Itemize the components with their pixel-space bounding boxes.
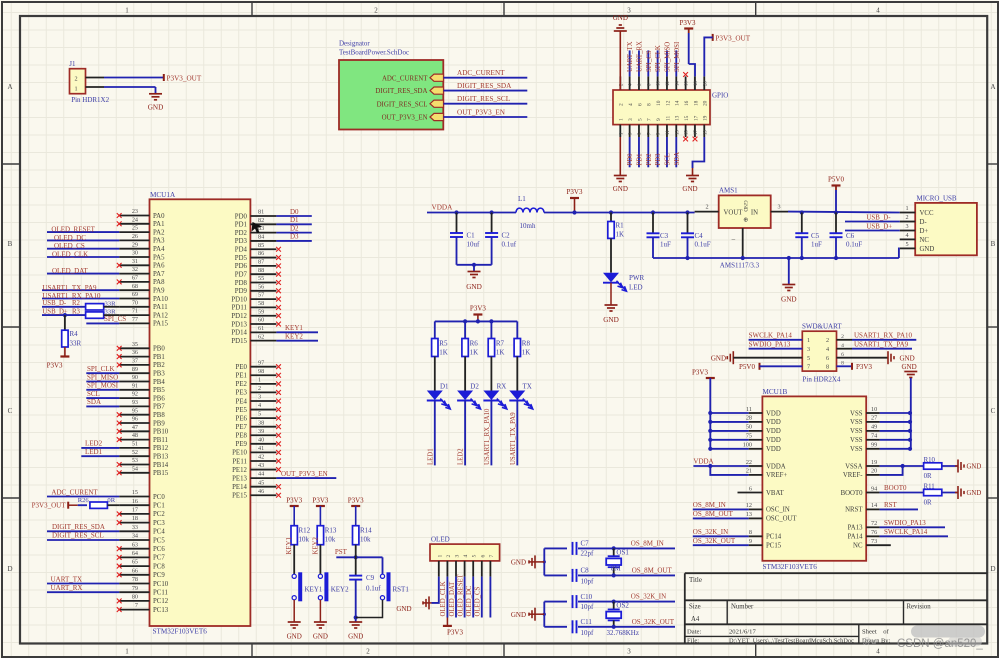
pin 2 stub of J1: [86, 77, 105, 79]
svg-text:84: 84: [258, 234, 264, 241]
GPIO pin 6: [638, 76, 640, 90]
svg-text:86: 86: [258, 250, 264, 257]
GPIO pin 16: [685, 76, 687, 90]
svg-text:STM32F103VET6: STM32F103VET6: [153, 628, 208, 636]
svg-text:PA2: PA2: [153, 229, 165, 236]
wire net ADC_CURENT: [47, 496, 119, 498]
svg-text:1: 1: [437, 555, 443, 558]
svg-text:29: 29: [132, 241, 138, 248]
svg-text:5: 5: [637, 118, 643, 121]
svg-text:34: 34: [132, 533, 138, 540]
svg-text:OS_8M_IN: OS_8M_IN: [631, 540, 664, 548]
svg-text:SPI_CLK: SPI_CLK: [655, 45, 662, 72]
svg-text:OS2: OS2: [616, 602, 629, 610]
wire R13 to KEY2 button: [319, 545, 321, 575]
svg-text:PC7: PC7: [153, 555, 165, 562]
svg-text:19: 19: [703, 115, 709, 121]
sheet entry port DIGIT_RES_SDA: [430, 87, 444, 94]
svg-text:PD13: PD13: [231, 321, 247, 328]
svg-text:43: 43: [258, 462, 264, 469]
pin 90 (PB4) of MCU1A: [119, 381, 149, 383]
svg-text:USB_D-: USB_D-: [866, 214, 891, 221]
wire P3V3_OUT to R26: [68, 504, 78, 506]
svg-text:KEY1: KEY1: [286, 537, 293, 554]
svg-text:R7: R7: [496, 340, 505, 348]
svg-text:PC6: PC6: [153, 546, 165, 553]
svg-text:69: 69: [132, 291, 138, 298]
svg-text:P3V3: P3V3: [567, 188, 583, 196]
svg-text:58: 58: [258, 300, 264, 307]
pin 24 (PA1) of MCU1A: [119, 223, 149, 225]
svg-text:1: 1: [74, 86, 77, 93]
wire OS_32K_IN top: [544, 601, 675, 603]
svg-text:R3: R3: [72, 309, 81, 316]
svg-text:VOUT: VOUT: [724, 210, 744, 217]
svg-text:P3V3_OUT: P3V3_OUT: [167, 74, 202, 82]
svg-text:C8: C8: [581, 567, 590, 575]
svg-text:VREF+: VREF+: [766, 472, 787, 479]
svg-text:⊕: ⊕: [743, 218, 748, 224]
svg-text:ADC_CURENT: ADC_CURENT: [457, 69, 505, 77]
svg-text:OS_32K_IN: OS_32K_IN: [631, 593, 666, 601]
svg-text:6: 6: [637, 103, 643, 106]
svg-text:VSS: VSS: [850, 428, 863, 435]
wire USB D- net: [845, 221, 900, 223]
svg-text:18: 18: [693, 100, 699, 106]
GPIO pin 13: [675, 125, 677, 137]
pin 4 (PE5) of MCU1A: [250, 409, 276, 411]
svg-text:Pin HDR1X2: Pin HDR1X2: [71, 96, 109, 104]
wire KEY1 to ground: [293, 600, 295, 622]
svg-text:P3V3: P3V3: [680, 19, 696, 27]
svg-text:53: 53: [132, 457, 138, 464]
pin 41 (PE10) of MCU1A: [250, 451, 276, 453]
wire net KEY1: [276, 331, 318, 333]
svg-text:81: 81: [258, 209, 264, 216]
GPIO pin 12: [666, 76, 668, 90]
wire net SPI_CS: [86, 322, 119, 324]
svg-text:51: 51: [132, 441, 138, 448]
svg-text:1K: 1K: [522, 349, 531, 357]
svg-text:P3V3: P3V3: [312, 497, 328, 505]
svg-text:SDA: SDA: [87, 398, 101, 406]
svg-text:18: 18: [694, 81, 699, 86]
svg-text:16: 16: [132, 498, 138, 505]
svg-text:2: 2: [258, 385, 261, 392]
pin 60 (PD13) of MCU1A: [250, 323, 276, 325]
svg-text:MICRO_USB: MICRO_USB: [917, 195, 957, 203]
svg-text:PA4: PA4: [153, 246, 165, 253]
svg-text:OS1: OS1: [616, 549, 629, 557]
svg-text:C: C: [991, 407, 996, 415]
svg-text:P3V3: P3V3: [47, 362, 63, 370]
svg-text:P3V3: P3V3: [348, 497, 364, 505]
pin 98 (PE1) of MCU1A: [250, 374, 276, 376]
crystal OS2 32.768KHz: [612, 600, 616, 604]
pin 28 (VDD) of MCU1B: [708, 420, 712, 424]
svg-text:D: D: [990, 565, 995, 573]
resistor R6 1K: [462, 339, 468, 357]
svg-text:RST1: RST1: [393, 586, 410, 594]
svg-text:2: 2: [446, 555, 452, 558]
svg-text:GND: GND: [613, 185, 628, 193]
svg-text:PA1: PA1: [153, 221, 164, 228]
svg-text:Revision: Revision: [907, 603, 932, 610]
svg-text:40: 40: [258, 436, 264, 443]
wire header pin 4 to USART1_TX_PA9: [837, 348, 853, 350]
svg-text:2: 2: [705, 204, 708, 211]
svg-text:9: 9: [749, 538, 752, 545]
svg-text:OLED_CS: OLED_CS: [54, 242, 85, 250]
svg-text:OS_8M_OUT: OS_8M_OUT: [693, 510, 734, 518]
svg-text:R13: R13: [325, 527, 337, 535]
svg-text:PA6: PA6: [153, 263, 165, 270]
svg-text:GND: GND: [682, 185, 697, 193]
wire rail to R7: [490, 321, 492, 338]
ground GND at crystal: [528, 560, 530, 563]
svg-text:1: 1: [125, 648, 129, 656]
pin 94 (BOOT0) of MCU1B: [866, 492, 879, 494]
inductor L1: [516, 208, 544, 212]
svg-text:ADC_CURENT: ADC_CURENT: [51, 488, 98, 496]
svg-text:LED1: LED1: [427, 448, 434, 465]
GPIO pin 14: [675, 76, 677, 90]
push button RST1: [380, 574, 384, 578]
svg-text:92: 92: [132, 391, 138, 398]
svg-text:PD15: PD15: [231, 338, 247, 345]
crystal OS1 8M: [612, 546, 616, 550]
svg-text:28: 28: [746, 415, 752, 422]
svg-text:PC8: PC8: [153, 563, 165, 570]
svg-text:USART1_TX_PA9: USART1_TX_PA9: [510, 412, 517, 465]
wire 5V input rail: [788, 211, 900, 214]
pin 67 (PA8) of MCU1A: [119, 281, 149, 283]
wire C9 to ground: [355, 580, 357, 622]
wire header pin 7 to P5V0: [760, 365, 803, 367]
svg-text:VCC: VCC: [920, 210, 934, 217]
svg-text:File:: File:: [687, 637, 699, 644]
svg-text:A4: A4: [691, 616, 700, 623]
svg-text:ADC_CURENT: ADC_CURENT: [382, 75, 428, 82]
svg-text:DIGIT_RES_SCL: DIGIT_RES_SCL: [52, 532, 104, 540]
pin 85 (PD4) of MCU1A: [250, 248, 276, 250]
svg-text:R8: R8: [522, 340, 531, 348]
pin 1 (PE2) of MCU1A: [250, 383, 276, 385]
svg-text:SWDIO_PA13: SWDIO_PA13: [749, 340, 791, 348]
svg-text:16: 16: [685, 81, 690, 86]
svg-text:14: 14: [675, 100, 681, 106]
svg-text:LED2: LED2: [85, 440, 103, 448]
svg-text:10pf: 10pf: [581, 603, 595, 611]
wire net DIGIT_RES_SDA: [47, 530, 119, 532]
svg-text:UART_RX: UART_RX: [636, 41, 643, 72]
connector J1: [70, 69, 86, 94]
svg-text:PB2: PB2: [153, 362, 165, 369]
svg-text:OLED: OLED: [431, 536, 450, 544]
svg-text:1K: 1K: [496, 349, 505, 357]
resistor R5 1K: [432, 339, 438, 357]
wire PA13 to SWDIO: [880, 526, 945, 528]
pin 52 (PB13) of MCU1A: [119, 455, 149, 457]
pin 6 (VBAT) of MCU1B: [738, 492, 763, 494]
svg-text:15: 15: [132, 489, 138, 496]
svg-text:GND: GND: [742, 200, 748, 211]
capacitor C1: [454, 210, 458, 214]
ground GND at GPIO bottom left: [619, 137, 621, 176]
resistor R4: [63, 313, 67, 317]
svg-text:OLED_CLK: OLED_CLK: [440, 581, 447, 616]
svg-text:SCL: SCL: [87, 390, 100, 398]
svg-text:D+: D+: [920, 228, 929, 235]
svg-text:GND: GND: [613, 14, 628, 22]
pin 7 (PC13) of MCU1A: [119, 609, 149, 611]
svg-text:2: 2: [374, 7, 378, 15]
svg-text:1: 1: [807, 337, 810, 344]
svg-text:10: 10: [657, 81, 662, 86]
svg-text:8: 8: [826, 364, 829, 371]
svg-text:NC: NC: [853, 543, 863, 550]
svg-text:31: 31: [132, 258, 138, 265]
wire net UART_RX: [47, 591, 119, 593]
svg-text:D3: D3: [290, 233, 299, 241]
svg-text:USART1_TX_PA9: USART1_TX_PA9: [42, 284, 97, 292]
pin 2 (D-) of MICRO_USB: [900, 221, 916, 223]
svg-text:VSS: VSS: [850, 446, 863, 453]
svg-text:USART1_TX_PA9: USART1_TX_PA9: [854, 340, 909, 348]
svg-text:PST: PST: [335, 548, 348, 556]
pin 78 (PC10) of MCU1A: [119, 583, 149, 585]
svg-text:PC15: PC15: [766, 543, 782, 550]
svg-text:1uF: 1uF: [811, 241, 822, 249]
svg-text:SPI_CLK: SPI_CLK: [87, 365, 115, 373]
svg-text:C7: C7: [581, 540, 590, 548]
svg-text:OLED_CLK: OLED_CLK: [52, 251, 88, 259]
pin 1 (VCC) of MICRO_USB: [900, 212, 916, 214]
resistor R2: [86, 304, 104, 310]
wire net OLED_CS: [47, 248, 119, 250]
svg-text:3: 3: [628, 118, 634, 121]
ground GND left of OLED: [429, 602, 432, 604]
wire LED D1 to net LED1: [434, 401, 436, 466]
svg-text:OLED_DC: OLED_DC: [466, 585, 473, 616]
wire OLED pin 5 net OLED_DC: [472, 577, 474, 618]
svg-text:2: 2: [826, 337, 829, 344]
svg-text:10: 10: [656, 100, 662, 106]
svg-text:3: 3: [627, 648, 631, 656]
svg-text:TX: TX: [523, 383, 532, 391]
svg-text:25: 25: [132, 225, 138, 232]
svg-text:PB11: PB11: [153, 437, 168, 444]
svg-text:65: 65: [132, 559, 138, 566]
svg-text:BOOT0: BOOT0: [841, 490, 864, 497]
svg-text:OSC_OUT: OSC_OUT: [766, 516, 797, 523]
pin 82 (PD1) of MCU1A: [250, 223, 276, 225]
svg-text:C9: C9: [366, 574, 375, 582]
wire LED RX to net USART1_RX_PA10: [490, 401, 492, 466]
svg-text:Designator: Designator: [339, 40, 370, 48]
svg-text:@u: @u: [862, 636, 876, 646]
wire net OLED_DAT: [47, 273, 119, 275]
pin 15 (PC0) of MCU1A: [119, 496, 149, 498]
svg-text:MCU1A: MCU1A: [150, 191, 176, 199]
wire ground rail: [653, 257, 899, 259]
svg-text:C1: C1: [467, 232, 476, 240]
svg-text:Date:: Date:: [687, 628, 701, 635]
svg-text:PB13: PB13: [153, 454, 169, 461]
capacitor C7: [567, 547, 578, 550]
svg-text:54: 54: [132, 465, 138, 472]
wire PST net: [336, 556, 382, 558]
svg-text:100: 100: [743, 442, 752, 449]
wire net SWDIO_PA13 to header: [749, 348, 803, 350]
svg-text:GND: GND: [920, 246, 935, 253]
svg-text:PD2: PD2: [646, 153, 653, 166]
svg-text:R5: R5: [439, 340, 448, 348]
GPIO pin 20: [703, 76, 705, 90]
svg-text:C11: C11: [581, 618, 593, 626]
pin 73 (NC) of MCU1B: [866, 544, 891, 546]
svg-text:42: 42: [258, 454, 264, 461]
wire net D1: [276, 223, 311, 225]
svg-text:PD12: PD12: [231, 313, 247, 320]
svg-text:5: 5: [472, 555, 478, 558]
svg-text:A: A: [7, 83, 12, 91]
wire OS_8M_IN top: [544, 547, 675, 549]
svg-text:71: 71: [132, 308, 138, 315]
svg-text:75: 75: [746, 433, 752, 440]
svg-text:10pf: 10pf: [581, 629, 595, 637]
svg-text:21: 21: [746, 468, 752, 475]
pin 16 (PC1) of MCU1A: [119, 504, 149, 506]
svg-text:PB6: PB6: [153, 395, 165, 402]
svg-text:PB10: PB10: [153, 429, 169, 436]
wire rail to R5: [434, 321, 436, 338]
ground GND at GPIO bottom right: [692, 168, 694, 176]
svg-text:1K: 1K: [439, 349, 448, 357]
push button KEY1: [292, 574, 296, 578]
pin 66 (PC9) of MCU1A: [119, 574, 149, 576]
svg-text:VDDA: VDDA: [432, 204, 454, 212]
pin 42 (PE11) of MCU1A: [250, 460, 276, 462]
pin 57 (PD10) of MCU1A: [250, 298, 276, 300]
svg-text:39: 39: [258, 428, 264, 435]
pin 80 (PC12) of MCU1A: [119, 600, 149, 602]
svg-text:PE5: PE5: [236, 407, 248, 414]
svg-text:PE1: PE1: [236, 373, 247, 380]
svg-text:22: 22: [746, 459, 752, 466]
svg-text:DIGIT_RES_SDA: DIGIT_RES_SDA: [52, 523, 105, 531]
svg-text:KEY1: KEY1: [305, 586, 323, 594]
wire GPIO pin 19 to ground: [693, 137, 705, 168]
svg-text:VREF-: VREF-: [843, 472, 863, 479]
GPIO pin 17: [694, 125, 696, 137]
svg-text:PC5: PC5: [153, 537, 165, 544]
capacitor C5: [800, 210, 804, 214]
wire net DIGIT_RES_SCL: [47, 539, 119, 541]
pin 70 (PA11) of MCU1A: [119, 306, 149, 308]
svg-text:PE14: PE14: [232, 484, 247, 491]
svg-text:63: 63: [132, 541, 138, 548]
svg-text:2: 2: [366, 648, 370, 656]
svg-text:B: B: [8, 240, 13, 248]
pin 37 (PB2) of MCU1A: [119, 364, 149, 366]
pin 84 (PD3) of MCU1A: [250, 240, 276, 242]
pin 79 (PC11) of MCU1A: [119, 591, 149, 593]
svg-text:1: 1: [125, 7, 129, 15]
pin 3 (D+) of MICRO_USB: [900, 230, 916, 232]
svg-text:10k: 10k: [360, 536, 371, 544]
ground GND on rail: [788, 258, 790, 284]
svg-text:PD8: PD8: [235, 280, 248, 287]
svg-text:55: 55: [258, 275, 264, 282]
svg-text:32: 32: [132, 266, 138, 273]
wire GPIO top pin 8: [647, 50, 649, 76]
wire J1 pin2 to P3V3_OUT: [104, 77, 164, 79]
svg-text:OS_32K_OUT: OS_32K_OUT: [693, 537, 736, 545]
svg-text:20: 20: [703, 81, 708, 86]
pin 1 stub of J1: [86, 86, 105, 88]
svg-text:80: 80: [132, 594, 138, 601]
svg-text:PB3: PB3: [153, 371, 165, 378]
svg-text:PE0: PE0: [236, 364, 248, 371]
pin 44 (PE13) of MCU1A: [250, 477, 276, 479]
svg-text:USB_D-: USB_D-: [42, 300, 67, 307]
wire GPIO bottom pin 5: [638, 137, 640, 167]
svg-text:PA12: PA12: [153, 312, 168, 319]
svg-text:PA13: PA13: [848, 525, 863, 532]
svg-text:VDD: VDD: [766, 446, 781, 453]
net label P3V3_OUT at GPIO: [712, 34, 714, 41]
pin 9 (PC15) of MCU1B: [749, 544, 763, 546]
pin 13 (OSC_OUT) of MCU1B: [749, 517, 763, 519]
wire BOOT0 to R11: [880, 492, 924, 494]
svg-text:D0: D0: [290, 208, 299, 216]
pin 31 (PA6) of MCU1A: [119, 264, 149, 266]
svg-text:2: 2: [619, 103, 625, 106]
svg-text:R14: R14: [360, 527, 372, 535]
capacitor C4: [685, 210, 689, 214]
ground GND under C1 C2: [473, 265, 475, 272]
svg-text:J1: J1: [69, 60, 76, 68]
pin 87 (PD6) of MCU1A: [250, 265, 276, 267]
wire net OUT_P3V3_EN: [276, 477, 336, 479]
svg-text:NRST: NRST: [845, 507, 863, 514]
svg-text:D1: D1: [440, 383, 449, 391]
svg-text:8M: 8M: [611, 565, 622, 573]
wire net VDDA to pin 22: [693, 465, 748, 467]
pin 18 (PC3) of MCU1A: [119, 522, 149, 524]
svg-text:PC4: PC4: [153, 529, 165, 536]
svg-text:C10: C10: [581, 593, 593, 601]
svg-text:98: 98: [258, 368, 264, 375]
svg-text:OSC_IN: OSC_IN: [766, 507, 790, 514]
push button KEY2: [318, 574, 322, 578]
svg-text:USB_D+: USB_D+: [866, 224, 892, 231]
pin 69 (PA10) of MCU1A: [119, 298, 149, 300]
svg-text:7: 7: [135, 602, 138, 609]
wire OLED pin1 to ground: [432, 577, 439, 603]
power port P3V3 under R4 (inverted): [64, 347, 66, 357]
svg-text:OS_32K_OUT: OS_32K_OUT: [632, 618, 675, 626]
svg-text:PC12: PC12: [153, 598, 169, 605]
svg-text:PC9: PC9: [153, 572, 165, 579]
svg-text:13: 13: [675, 130, 680, 135]
svg-text:SPI_MISO: SPI_MISO: [87, 373, 118, 381]
svg-text:PA11: PA11: [153, 304, 168, 311]
wire P3V3 to GPIO pin 18: [689, 64, 695, 76]
svg-text:PB14: PB14: [153, 462, 169, 469]
svg-text:0.1uF: 0.1uF: [695, 241, 711, 249]
